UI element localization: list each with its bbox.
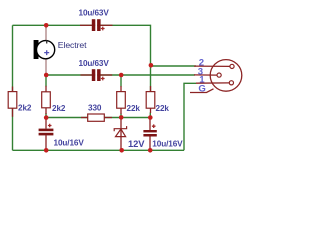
connector X1 pin 3 hole (217, 73, 221, 77)
junction dots (44, 23, 153, 153)
microphone MIC1 body rect (34, 40, 39, 59)
microphone MIC1 top tick (46, 41, 48, 44)
connector X1 XLR shell circle (210, 60, 242, 92)
capacitor C1 plus sign (101, 27, 105, 31)
wire 22k#1 bottom (120, 114, 122, 118)
component pin stubs dark red (13, 25, 230, 150)
resistor R5 22k (146, 92, 155, 109)
connector pin 1 stub (196, 82, 229, 84)
resistor R2 pins (45, 86, 47, 92)
node pin2 junction (149, 63, 154, 68)
capacitor C3 10u/16V plates (39, 129, 54, 136)
svg-text:10u/63V: 10u/63V (79, 59, 110, 68)
svg-text:10u/16V: 10u/16V (152, 139, 183, 148)
svg-text:10u/16V: 10u/16V (54, 138, 85, 147)
capacitor C1 10u/63V plates (92, 19, 101, 31)
capacitor C2 10u/63V plates (92, 69, 101, 81)
wire mic branch below junction (45, 75, 47, 87)
svg-text:10u/63V: 10u/63V (79, 9, 110, 18)
zener diode D1 triangle (116, 129, 126, 137)
wire top rail net (13, 25, 197, 151)
svg-text:2k2: 2k2 (18, 104, 32, 113)
connector pin 2 stub (194, 65, 230, 67)
svg-text:2k2: 2k2 (52, 104, 66, 113)
wire right rail vertical (184, 83, 196, 150)
capacitor C3 plus sign (48, 124, 52, 128)
zener D1 pins (120, 118, 122, 151)
svg-text:330: 330 (88, 104, 102, 113)
node 22k#1 top junction (119, 73, 124, 78)
capacitor C1 gap mask (95, 19, 97, 31)
connector X1 pin 2 hole (230, 64, 234, 68)
wire 2k2#2 bottom to junction (45, 113, 47, 118)
node cap C4 top junction (148, 115, 153, 120)
svg-text:Electret: Electret (58, 40, 87, 50)
resistor R3 330 pins (81, 117, 88, 119)
capacitor C3 vertical pins (45, 118, 47, 129)
capacitor C1 pins top rail (80, 24, 92, 26)
resistor R4 22k pins (120, 86, 122, 92)
wire 22k#1 top (120, 75, 122, 87)
node cap C3 bottom junction (44, 148, 49, 153)
connector pin G stub (190, 89, 214, 93)
connector X1 pin 1 hole (229, 81, 233, 85)
microphone MIC1 plus (44, 50, 49, 55)
resistor R1 2k2 (8, 92, 17, 109)
wire left rail vertical (12, 25, 14, 150)
svg-text:22k: 22k (156, 104, 170, 113)
wire bottom rail (13, 149, 185, 151)
svg-text:G: G (198, 84, 205, 95)
capacitor C4 plus sign (152, 124, 156, 128)
wire mid line y74.8 (46, 74, 195, 76)
svg-text:22k: 22k (127, 104, 141, 113)
node 2k2#2 bottom junction (44, 115, 49, 120)
node mic top junction (44, 23, 49, 28)
resistor R4 22k (117, 92, 126, 109)
zener diode D1 cathode bar (114, 126, 126, 131)
node zener top junction (119, 115, 124, 120)
resistor R1 pins (12, 87, 14, 93)
resistor R5 22k pins (150, 86, 152, 92)
wire pin2 net horizontal (151, 65, 197, 67)
mic pin pale vertical (45, 28, 47, 75)
capacitor C2 gap mask (95, 69, 97, 81)
svg-text:12V: 12V (128, 138, 145, 149)
capacitor C2 pins mid line (81, 74, 92, 76)
node mic output junction (44, 73, 49, 78)
capacitor C4 vertical pins (149, 118, 151, 131)
connector pin 3 stub (194, 74, 217, 76)
node cap C4 bottom junction (148, 148, 153, 153)
wire 330 net (46, 117, 150, 119)
capacitor C4 10u/16V plates (143, 130, 156, 137)
capacitor C2 plus sign (101, 77, 105, 81)
microphone MIC1 circle (37, 41, 55, 59)
resistor R3 330 horizontal (88, 114, 105, 121)
node zener bottom junction (119, 148, 124, 153)
wire vertical x150.5 to 22k (150, 66, 152, 92)
wire mic branch top stub (45, 25, 47, 30)
resistor R2 2k2 (42, 92, 51, 108)
wire 22k#2 bottom (149, 113, 151, 119)
